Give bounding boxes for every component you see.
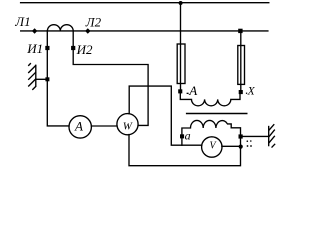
wire bus line top [21, 2, 269, 4]
node dot И2 [71, 46, 75, 50]
transformer TA primary winding (current transformer coil) [47, 25, 73, 31]
svg-text:И1: И1 [26, 41, 43, 56]
wire И2 vertical and horizontal to W [73, 31, 148, 126]
node dot И1 [45, 46, 49, 50]
svg-text:A: A [74, 118, 83, 133]
ground hatching right [269, 125, 275, 147]
svg-text:а: а [185, 129, 191, 143]
ground tap wire left [36, 78, 47, 80]
node dot on second bus at fuse 2 [238, 29, 242, 33]
svg-text:И2: И2 [76, 42, 93, 57]
node dot voltmeter right [239, 145, 243, 149]
wire W top vertical and over to right [129, 86, 202, 145]
ground bar left [35, 65, 37, 86]
wire V right to node [222, 145, 241, 147]
transformer TV core bar [187, 113, 247, 115]
node dot Л2 terminal [85, 28, 90, 33]
node dot ground tap left [45, 77, 49, 81]
wire fuse FU2 drop from second bus [240, 31, 242, 92]
label А dash artifact [187, 93, 189, 94]
label х tiny dots [247, 140, 249, 142]
voltmeter PV circle [202, 137, 222, 157]
wire x-terminal down to voltmeter node [240, 136, 242, 146]
ground hatching left [29, 64, 36, 90]
ground bar right [268, 127, 270, 146]
svg-text:Л2: Л2 [85, 15, 102, 30]
node dot on top bus [179, 1, 183, 5]
svg-text:А: А [188, 83, 197, 98]
transformer TV secondary winding [182, 120, 241, 136]
svg-text:X: X [247, 85, 256, 97]
node dot а terminal [180, 134, 184, 138]
wire И1 vertical [47, 31, 69, 126]
wire W bottom to bottom rail [129, 135, 241, 166]
fuse FU1 body [177, 44, 185, 84]
wire fuse FU1 drop from top bus [180, 3, 182, 91]
wire bus line 2 (Л line) [21, 30, 268, 32]
fuse FU2 body [238, 46, 245, 85]
wire a-terminal down to voltmeter line [181, 136, 183, 145]
node dot X terminal [239, 90, 243, 94]
ammeter PA circle [69, 116, 91, 138]
svg-text:V: V [210, 141, 218, 152]
svg-text:W: W [123, 120, 133, 132]
wire A to W [91, 125, 117, 127]
node dot х terminal [239, 134, 243, 138]
ground wire right [241, 135, 269, 137]
svg-text:Л1: Л1 [14, 14, 30, 29]
wattmeter PW circle [117, 114, 138, 135]
transformer TV primary winding [180, 91, 240, 106]
node dot Л1 terminal [32, 28, 37, 33]
node dot А terminal [178, 89, 182, 93]
label X dot artifact [246, 93, 247, 94]
